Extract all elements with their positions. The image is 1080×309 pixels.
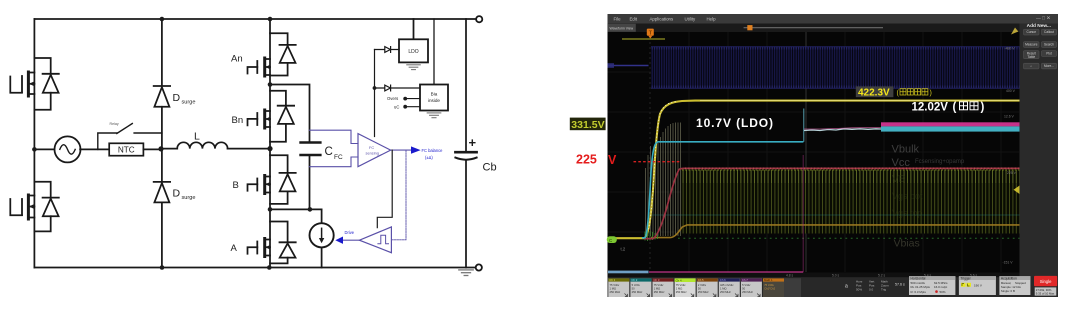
red trace vcc [644,168,1020,238]
svg-text:5 V/div: 5 V/div [742,283,751,287]
svg-text:1 MΩ: 1 MΩ [610,286,617,290]
svg-text:1 MΩ: 1 MΩ [720,286,727,290]
label 331.5V [570,118,606,131]
diode D3 to LDO [375,47,400,53]
svg-text:12.6 V: 12.6 V [1004,115,1015,119]
terminal DC- [476,264,482,270]
transistor An with body diode [231,19,296,85]
svg-text:FC: FC [334,154,343,161]
svg-text:Drive: Drive [345,230,355,235]
current source I1 [270,209,334,267]
svg-text:225 V: 225 V [1007,171,1017,175]
bottom axis strip [608,273,1020,278]
svg-text:Add New...: Add New... [1027,23,1051,29]
svg-text:Ch 5: Ch 5 [698,278,704,282]
svg-text:D: D [173,92,181,104]
green badge marker [607,236,617,243]
svg-text:Vcc: Vcc [892,157,911,169]
svg-text:Single: Single [1040,279,1052,284]
svg-text:Ch 6: Ch 6 [720,278,726,282]
svg-text:425 mV/div: 425 mV/div [720,283,734,287]
transistor Q1 top-left with body diode [10,58,59,110]
label 422.3V [856,86,894,97]
svg-text:75 V/div: 75 V/div [676,283,686,287]
svg-text:⌕: ⌕ [1030,64,1032,68]
svg-text:Relay: Relay [110,122,119,126]
svg-text:(±Δ): (±Δ) [425,155,433,160]
right edge scale labels [1003,47,1017,265]
orange trace vbias [651,225,1020,238]
svg-text:Measure: Measure [1025,43,1038,47]
status bar [608,277,1059,297]
svg-text:75 V/div: 75 V/div [654,283,664,287]
transistor Q2 bottom-left with body diode [10,182,59,232]
yellow grab icon [1011,28,1018,35]
capacitor Cb [455,19,496,268]
svg-text:+: + [469,135,477,150]
driver U2 [359,227,391,253]
overview magenta line [649,271,803,273]
ground main [459,270,473,276]
svg-text:): ) [930,90,932,97]
svg-text:Waveform View: Waveform View [610,26,634,30]
svg-text:Ch 2: Ch 2 [631,278,637,282]
node uC input [394,104,420,109]
svg-text:An: An [231,54,243,65]
svg-text:Acquisition: Acquisition [1001,276,1017,280]
svg-text:Vbias: Vbias [894,238,920,250]
svg-text:57.6 s: 57.6 s [895,283,905,287]
svg-text:5.2 s: 5.2 s [878,273,885,277]
diode D4 to bias [375,85,421,91]
svg-text:FC: FC [369,145,374,150]
yellow right marker [1014,186,1020,195]
scope window [608,14,1059,297]
ground LDO [407,65,420,70]
svg-text:Search: Search [1044,43,1054,47]
svg-text:5 V/div: 5 V/div [632,283,641,287]
yellow trace vbulk [609,101,1020,239]
wire opamp output [391,146,444,159]
LDO U3 [399,19,428,62]
green pre-trigger blob [645,231,658,242]
terminal DC+ [476,16,482,22]
op-amp U1 FC sensing [358,134,391,167]
svg-text:Applications: Applications [650,17,674,22]
diode D_surge lower [154,149,196,268]
svg-text:A: A [231,243,238,254]
svg-text:250 MHz: 250 MHz [698,290,709,294]
graticule [608,32,1020,272]
resistor NTC [109,143,162,155]
svg-text:0.0: 0.0 [869,288,874,292]
mid status text cluster [845,280,905,292]
svg-text:50: 50 [742,286,745,290]
wire driver output [335,230,359,244]
svg-text:Edit: Edit [630,17,638,22]
transistor A with body diode [231,209,296,267]
svg-text:75 V/div: 75 V/div [610,283,620,287]
svg-text:Vgs bot: Vgs bot [892,191,923,201]
svg-text:16.0 ns/pt: 16.0 ns/pt [934,285,947,289]
svg-text:50%: 50% [940,290,946,294]
svg-text:Ch 7: Ch 7 [742,278,748,282]
side panel [1020,24,1059,278]
svg-text:Fcsensing+opamp: Fcsensing+opamp [915,159,965,165]
plot background [608,32,1020,273]
svg-text:Plot: Plot [1046,52,1052,56]
svg-text:Ch 3: Ch 3 [654,278,660,282]
inductor L [162,131,270,149]
green band switching trace [681,170,1020,234]
svg-text:File: File [614,17,622,22]
svg-text:surge: surge [182,195,196,201]
trigger box [959,276,996,295]
blue band trace ch blue [651,47,1020,89]
svg-text:Utility: Utility [685,17,697,22]
overview blue bar [608,271,649,274]
svg-text:9.33 of 10 Max: 9.33 of 10 Max [1036,291,1055,295]
svg-text:Vbulk: Vbulk [892,143,920,155]
svg-text:Ch 4: Ch 4 [676,278,682,282]
svg-text:uC: uC [394,104,399,109]
svg-text:10.7V (LDO): 10.7V (LDO) [696,116,774,130]
SCOPE [570,14,1058,297]
svg-text:250 MHz: 250 MHz [610,290,621,294]
wire opamp input bottom [310,157,359,167]
svg-text:surge: surge [182,100,196,106]
block U4 bias inside [420,19,448,111]
svg-text:250 MHz: 250 MHz [720,290,731,294]
capacitor C_FC [270,85,343,210]
channel badges [608,278,784,297]
svg-text:250 MHz: 250 MHz [632,290,643,294]
svg-text:(: ( [953,101,957,113]
svg-text:1 MΩ: 1 MΩ [654,286,661,290]
svg-text:Bia: Bia [431,92,438,97]
svg-text:250 MHz: 250 MHz [742,290,753,294]
menu bar [608,14,1059,24]
cyan trace ldo [642,142,803,238]
svg-text:t.2: t.2 [621,247,626,252]
svg-text:50: 50 [698,286,701,290]
wire bottom rail [34,267,475,269]
svg-text:422.3V: 422.3V [858,88,890,99]
svg-text:C: C [325,146,333,158]
svg-text:Ch 1: Ch 1 [609,278,615,282]
svg-text:250 MHz: 250 MHz [676,290,687,294]
svg-text:5.0 s: 5.0 s [832,273,839,277]
svg-text:RL 31.25 Mpts: RL 31.25 Mpts [911,285,931,289]
svg-text:Bn: Bn [232,115,244,126]
svg-text:75 V/div: 75 V/div [764,283,774,287]
relay switch [98,122,162,150]
svg-text:Ch1*Ch2: Ch1*Ch2 [764,286,775,290]
svg-text:Horizontal: Horizontal [911,276,926,280]
horizontal box [909,276,955,295]
svg-text:VB: VB [892,174,906,185]
magenta band bias [881,122,1020,126]
svg-text:More...: More... [1044,64,1054,68]
svg-text:225: 225 [576,153,597,167]
blue baseline left [608,65,649,67]
svg-text:B: B [233,180,239,191]
svg-text:1 MΩ: 1 MΩ [676,286,683,290]
svg-text:— □ ✕: — □ ✕ [1036,15,1050,21]
svg-text:a: a [845,284,848,290]
svg-text:400 V: 400 V [1006,89,1016,93]
svg-text:Cursor: Cursor [1027,30,1038,34]
node Overs input [387,96,420,101]
single button [1034,276,1057,286]
wire opamp input top [310,130,359,143]
svg-text:Callout: Callout [1044,30,1054,34]
svg-text:L: L [194,131,200,143]
svg-text:190 V: 190 V [974,283,982,287]
AC source V1 [34,136,109,162]
tab bar [608,24,1020,33]
olive ref line [622,38,665,40]
svg-text:Overs: Overs [387,96,398,101]
svg-text:LDO: LDO [408,49,418,55]
svg-text:NTC: NTC [118,146,135,155]
acquisition box [999,276,1030,295]
wire vcc column [374,50,376,137]
wire bias to driver [377,150,392,228]
trigger marker [647,29,654,36]
red dashed annotation [634,161,682,163]
svg-text:): ) [981,101,985,113]
transistor B with body diode [233,149,296,210]
ground bias [427,113,441,118]
svg-text:Cb: Cb [483,162,497,174]
svg-text:-480 V: -480 V [1005,47,1016,51]
teal faint line [651,214,1020,216]
svg-text:50%: 50% [856,288,862,292]
wire left rail [33,19,35,268]
diode D_surge upper [154,19,196,149]
svg-text:Math 1: Math 1 [764,278,773,282]
svg-text:12.02V: 12.02V [912,101,949,113]
svg-text:Single: 0 B: Single: 0 B [1001,289,1015,293]
green dashed trace [678,237,1020,239]
svg-text:FC balance: FC balance [422,148,444,153]
transistor Bn with body diode [232,85,295,149]
svg-text:sensing: sensing [366,151,379,156]
svg-text:-151 V: -151 V [1003,261,1014,265]
svg-text:2 V/div: 2 V/div [698,283,707,287]
svg-text:Table: Table [1027,55,1035,59]
magenta cursor [802,155,804,272]
svg-text:250 MHz: 250 MHz [654,290,665,294]
svg-text:Trigger: Trigger [960,276,971,280]
svg-text:Help: Help [707,17,717,22]
svg-text:Trig: Trig [881,288,886,292]
wire top rail [34,18,475,20]
svg-text:331.5V: 331.5V [571,119,604,131]
svg-text:R: 6.3 Mpts: R: 6.3 Mpts [911,290,927,294]
svg-text:Vgs top: Vgs top [892,208,923,218]
svg-text:V: V [608,153,617,167]
svg-text:4.8 s: 4.8 s [786,273,793,277]
svg-text:inside: inside [428,98,440,103]
svg-text:D: D [173,188,181,200]
svg-text:50: 50 [632,286,635,290]
wire feedback purple [391,150,406,240]
